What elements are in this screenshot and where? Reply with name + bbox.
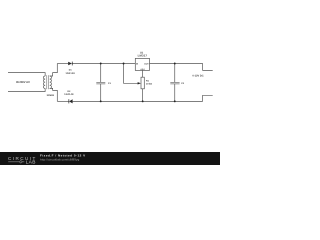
transformer XFMR2 primary coil bbox=[43, 76, 45, 88]
wire secondary bottom lead bbox=[50, 88, 58, 101]
op-amp U1 LM317 box bbox=[135, 58, 149, 70]
svg-text:LM317: LM317 bbox=[138, 53, 148, 57]
diode D1 cathode bar bbox=[71, 62, 74, 66]
wire pot wiper tap bbox=[124, 64, 139, 84]
logo CIRCUIT bbox=[8, 154, 86, 166]
diode D2 triangle bbox=[69, 99, 73, 103]
svg-text:1N4148: 1N4148 bbox=[64, 93, 74, 96]
junction node top rail C3 bbox=[174, 63, 176, 65]
wire OUT to right bbox=[150, 63, 203, 65]
wire C1 lower lead bbox=[100, 84, 102, 101]
svg-text:LAB: LAB bbox=[26, 160, 36, 166]
wire C3 upper lead bbox=[174, 64, 176, 83]
svg-text:http://circuitlab.com/c6f89yg: http://circuitlab.com/c6f89yg bbox=[40, 158, 80, 162]
wire bottom rail D2 to right bbox=[73, 100, 203, 102]
transformer XFMR2 core bbox=[46, 75, 48, 89]
diode D2 cathode bar bbox=[68, 99, 71, 103]
wire output terminal bottom hook bbox=[203, 95, 213, 101]
wire R1 bottom lead bbox=[142, 89, 144, 102]
wire top rail D1 to LM317 bbox=[72, 63, 135, 65]
logo wire glyph bbox=[8, 161, 24, 163]
wire secondary top lead bbox=[50, 64, 58, 77]
junction node bottom rail C3 bbox=[174, 100, 176, 102]
junction node top rail wiper tap bbox=[123, 63, 125, 65]
svg-text:OUT: OUT bbox=[144, 62, 149, 65]
wire C3 lower lead bbox=[174, 84, 176, 101]
wire primary top lead bbox=[8, 73, 45, 76]
svg-text:1N4148: 1N4148 bbox=[66, 72, 76, 75]
junction node bottom rail R1 bbox=[142, 100, 144, 102]
junction node bottom rail C1 bbox=[100, 100, 102, 102]
resistor R1 body bbox=[141, 77, 144, 89]
footer bar bbox=[0, 152, 220, 165]
svg-text:0-12V DC: 0-12V DC bbox=[192, 75, 203, 78]
diode D1 triangle bbox=[68, 62, 72, 66]
transformer XFMR2 secondary coil bbox=[50, 76, 52, 88]
svg-text:10 kΩ: 10 kΩ bbox=[146, 83, 152, 86]
wire output terminal top hook bbox=[203, 64, 213, 71]
wire top rail left of D1 bbox=[57, 63, 68, 65]
capacitor C1 plates bbox=[96, 81, 105, 83]
svg-text:IN 230V AC: IN 230V AC bbox=[16, 81, 30, 84]
junction node top rail C1 bbox=[100, 63, 102, 65]
capacitor C3 plates bbox=[170, 81, 179, 83]
logo diamond glyph bbox=[19, 161, 22, 164]
wire C1 upper lead bbox=[100, 64, 102, 83]
wire primary bottom lead bbox=[8, 88, 45, 91]
pot wiper arrowhead bbox=[138, 82, 141, 84]
wire ADJ lead bbox=[141, 70, 143, 77]
svg-text:XFMR2: XFMR2 bbox=[47, 94, 55, 97]
wire bottom rail left of D2 bbox=[57, 100, 69, 102]
